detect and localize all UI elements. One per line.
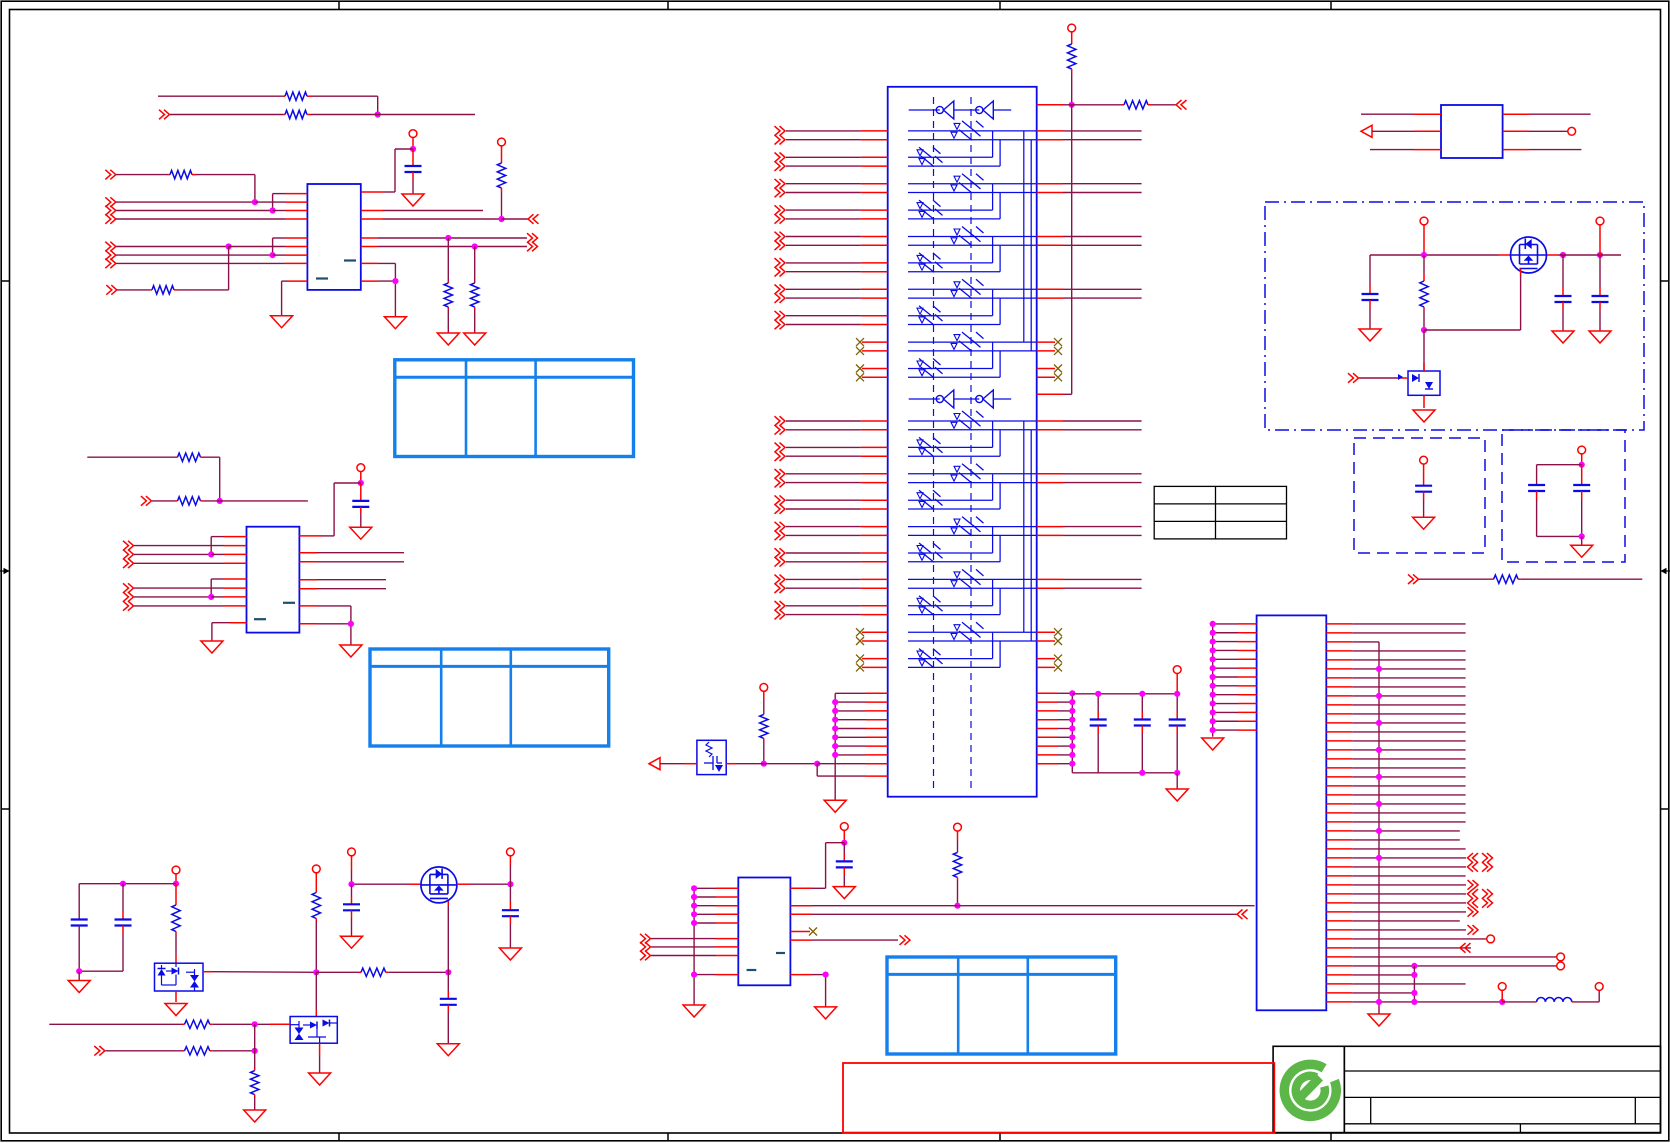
U4 switch cell S17 <box>908 569 1037 641</box>
resistor R21 <box>251 1068 259 1097</box>
wire net B1 <box>116 174 168 176</box>
resistor R1 <box>283 92 311 100</box>
wire option bottom rail <box>1537 535 1582 537</box>
border zone tick bottom x=339 <box>338 1133 340 1141</box>
pin U1 12 <box>361 246 378 248</box>
wire net F1 <box>317 552 404 554</box>
connector J1 pin R8 <box>1326 686 1465 688</box>
resistor R3 <box>497 163 505 192</box>
wire R16 down <box>175 934 177 963</box>
input arrow J2 <box>1361 125 1372 137</box>
connector J1 pin R35 <box>1326 925 1478 935</box>
ground <box>341 936 363 948</box>
wire gate up <box>447 898 449 972</box>
wire C4 drop <box>474 247 476 282</box>
pin U2 13 <box>299 605 317 607</box>
pin U3 out1 <box>790 905 812 907</box>
transistor Q1 (protection xsitor) <box>684 740 736 774</box>
connector J1 pin R38 <box>1326 953 1564 961</box>
power node P9 <box>1568 127 1576 135</box>
wire net B1b <box>196 175 255 203</box>
wire U2 gnd-right <box>317 624 351 645</box>
ground <box>1368 1014 1390 1026</box>
U4 left pins pair 16 <box>775 548 888 566</box>
U4 left pins pair 11 <box>775 416 888 434</box>
wire U2 pin1 <box>211 537 224 555</box>
table T2 (blue) <box>370 649 609 746</box>
node U2 gnd junction <box>348 621 354 627</box>
off-page connector Q1in <box>94 1046 105 1056</box>
wire net E1 <box>134 545 224 547</box>
ground <box>1359 329 1381 341</box>
pin U2 9 <box>299 552 317 554</box>
off-page connector N3 <box>640 951 651 961</box>
off-page connector E1 <box>123 541 134 551</box>
ground <box>464 333 486 345</box>
wire net C3 <box>378 237 527 239</box>
option box 1 (dashed) <box>1354 438 1485 553</box>
power node P13 <box>1578 446 1586 465</box>
off-page connector M1 <box>1408 574 1419 584</box>
capacitor C6 <box>1362 255 1379 329</box>
node P13 junction <box>1579 462 1585 468</box>
power node P17 <box>312 865 320 893</box>
pin U3 out3 <box>790 939 812 941</box>
pin U2 vdd <box>299 535 321 537</box>
wire net B2b <box>255 201 285 203</box>
U4 switch cell S15 <box>908 517 1037 589</box>
wire drain rail <box>457 883 511 885</box>
IC U5 <box>1441 105 1503 158</box>
capacitor C17 <box>502 884 519 948</box>
connector J1 pin R26 <box>1326 848 1465 850</box>
capacitor C4 <box>1134 694 1151 773</box>
pin U1 10 <box>361 218 383 220</box>
wire en-top <box>1063 104 1072 106</box>
U4 switch cell S7 <box>908 279 1037 351</box>
pin U5 2 <box>1414 130 1441 132</box>
power node P3 <box>357 464 365 483</box>
resistor R5 <box>150 286 177 294</box>
power node P16 <box>172 866 180 884</box>
node gnd-right junction <box>392 278 398 284</box>
wire R12 down <box>763 741 765 764</box>
off-page connector E2 <box>123 550 134 560</box>
pin U5 5 <box>1503 130 1529 132</box>
wire net F5 <box>317 606 351 624</box>
U4 left pins pair 15 <box>775 522 888 540</box>
connector J1 pin R16 <box>1326 758 1465 760</box>
ground <box>499 948 521 960</box>
U4 left pins pair 7 <box>775 285 888 303</box>
node B2 junction <box>252 199 258 205</box>
IC U1 <box>307 184 360 290</box>
ground <box>165 1004 187 1016</box>
U4 right pins pair 15 <box>1037 527 1142 536</box>
wire net A2b <box>311 114 475 116</box>
ground <box>1202 738 1224 750</box>
pin U3 gnd-right <box>790 974 812 976</box>
wire cap rail bottom <box>79 970 123 972</box>
connector J1 body <box>1257 615 1327 1010</box>
transistor Q6 (pmos) <box>421 867 457 903</box>
U4 right pins pair 3 <box>1037 184 1142 193</box>
off-page connector D2 <box>141 496 152 506</box>
wire net B7 <box>116 262 285 264</box>
border center arrow right <box>1661 568 1670 574</box>
border zone tick right y=809 <box>1661 808 1669 810</box>
U4 right pins pair 11 <box>1037 421 1142 430</box>
resistor R4 <box>168 170 196 178</box>
capacitor C3 <box>1090 694 1107 773</box>
wire net B2 <box>116 201 255 203</box>
U4 switch cell S10 <box>908 343 1000 378</box>
connector J1 pin R40 <box>1326 972 1417 978</box>
connector J1 pin R11 <box>1326 713 1465 715</box>
border zone tick bottom x=668 <box>667 1133 669 1141</box>
connector J1 pin R21 <box>1326 801 1465 807</box>
pin U1 vdd <box>361 191 383 193</box>
off-page connector E6 <box>123 601 134 611</box>
node U3 gnd junction <box>823 972 829 978</box>
node P16 junction <box>173 881 179 887</box>
wire R17 to Q5 <box>315 972 317 1016</box>
wire bottom tie <box>254 1024 256 1068</box>
connector J1 pin R12 <box>1326 720 1465 726</box>
power node P10 <box>1420 217 1428 255</box>
ground <box>402 194 424 206</box>
U4 right pins pair 13 <box>1037 474 1142 483</box>
wire P1 to U1 pin <box>383 149 413 192</box>
pin U5 1 <box>1414 113 1441 115</box>
connector J1 pin R24 <box>1326 828 1460 834</box>
pin U1 13 <box>361 262 378 264</box>
wire net Q4-out <box>213 971 316 974</box>
resistor R12 <box>760 714 768 741</box>
U4 enable bus <box>1071 105 1073 395</box>
U4 switch cell S4 <box>908 184 1000 219</box>
wire net D2b <box>203 500 308 502</box>
capacitor C5 <box>1169 694 1186 773</box>
pin U3 vdd <box>790 887 812 889</box>
wire option gnd <box>1581 536 1583 545</box>
U4 inverter chain top <box>909 101 1012 119</box>
power node P14 <box>840 823 848 843</box>
wire decoupling top rail <box>1072 693 1177 695</box>
wire net F4 <box>317 588 386 590</box>
U4 left pins pair 4 <box>775 205 888 223</box>
capacitor C16 <box>343 884 360 936</box>
node Q1 gate junction <box>761 761 767 767</box>
node rail junctions <box>1421 252 1603 258</box>
wire net B6 <box>116 254 273 256</box>
node net-R17 junction <box>313 969 319 975</box>
wire net B5 <box>116 246 229 248</box>
ground <box>437 333 459 345</box>
connector J1 pin R5 <box>1326 659 1465 661</box>
U4 switch cell S9 <box>908 332 1037 351</box>
wire net A1b <box>311 96 378 114</box>
U4 left pins pair 18 <box>775 601 888 619</box>
pin U1 gnd-right <box>361 280 378 282</box>
ground <box>1166 789 1188 801</box>
off-page connector E5 <box>123 592 134 602</box>
wire net G1b <box>1151 104 1176 106</box>
connector J1 pin R18 <box>1326 774 1465 780</box>
ground <box>1413 517 1435 529</box>
wire net gate b <box>388 971 448 973</box>
wire net bottom2 <box>106 1050 183 1052</box>
pin U4 ctl10 <box>866 775 888 777</box>
revision box (red) <box>843 1063 1274 1133</box>
wire net M1b <box>1521 578 1643 580</box>
wire R7 gnd <box>474 310 476 333</box>
pin U2 4 <box>224 562 247 564</box>
wire net B3 <box>116 210 273 212</box>
power node P1 <box>409 130 417 149</box>
wire net N1 <box>651 938 738 940</box>
off-page connector O3 <box>900 935 911 945</box>
U4 left pins pair 14 <box>775 495 888 513</box>
U4 right pins pair 5 <box>1037 237 1142 246</box>
wire R3 to net <box>501 192 503 219</box>
pin U1 4 <box>285 218 307 220</box>
wire net C5 <box>378 263 395 281</box>
wire U2 gnd-left <box>212 623 230 641</box>
wire net E3 <box>134 562 224 564</box>
off-page connector N1 <box>640 934 651 944</box>
node rail junction <box>120 881 126 887</box>
off-page connector B4 <box>105 214 116 224</box>
connector J1 pin R31 <box>1326 889 1492 899</box>
connector J1 pin R42 <box>1326 990 1417 996</box>
resistor R9 <box>176 497 204 505</box>
wire net J1b <box>1529 113 1591 115</box>
wire U3 gnd-right <box>812 975 826 1007</box>
ground <box>833 887 855 899</box>
off-page connector C4 <box>527 242 538 252</box>
pin U5 6 <box>1503 149 1529 151</box>
wire L1 to P8 <box>1574 990 1599 1002</box>
wire net M1 <box>1419 578 1491 580</box>
capacitor C13 <box>71 920 88 972</box>
resistor R18 <box>359 968 389 976</box>
pin U4 en-top <box>1037 104 1063 106</box>
capacitor C15 <box>440 972 457 1043</box>
wire decoupling bottom rail <box>1072 772 1177 774</box>
node B5 junction <box>226 243 232 249</box>
wire net D1 <box>87 456 175 458</box>
node E5 junction <box>208 594 214 600</box>
connector J1 pin R33 <box>1326 907 1478 917</box>
border zone tick top x=339 <box>338 1 340 9</box>
pin U1 11 <box>361 237 378 239</box>
U4 right nc pair 10 <box>1037 365 1062 382</box>
wire rail right <box>1547 254 1622 256</box>
resistor R16 <box>172 884 180 934</box>
connector J1 pin R28 <box>1326 862 1492 872</box>
resistor R20 <box>182 1047 212 1055</box>
border zone tick top x=1000 <box>999 1 1001 9</box>
pin U2 11 <box>299 579 317 581</box>
pin U2 10 <box>299 561 317 563</box>
title block logo cell <box>1273 1046 1344 1132</box>
pin U3 nc <box>790 928 817 936</box>
connector J1 pin R22 <box>1326 812 1465 814</box>
wire net E5 <box>134 596 211 598</box>
U4 left pins pair 5 <box>775 232 888 250</box>
wire source rail <box>352 871 421 884</box>
wire net B8 <box>117 289 150 291</box>
wire P14 to U3 <box>812 843 844 889</box>
ground <box>683 1005 705 1017</box>
option box 2 (dashed) <box>1502 430 1625 562</box>
resistor R10 <box>1068 44 1076 73</box>
wire P3 to U2 <box>321 483 361 536</box>
table T3 (blue) <box>887 957 1116 1054</box>
U4 right nc pair 19 <box>1037 628 1062 645</box>
wire net gate <box>316 971 358 973</box>
power node P4 <box>1068 24 1076 44</box>
border zone tick left y=281 <box>1 280 9 282</box>
U4 left pins pair 3 <box>775 179 888 197</box>
capacitor C10 <box>1528 485 1545 536</box>
U4 left pins pair 8 <box>775 311 888 329</box>
resistor R2 <box>283 110 311 118</box>
ground <box>815 1007 837 1019</box>
wire Q5 gnd <box>319 1056 321 1074</box>
wire option rail <box>1537 465 1582 485</box>
node decoupling junctions <box>1095 691 1180 776</box>
connector J1 pin R6 <box>1326 666 1465 672</box>
wire net J2a <box>1372 130 1414 132</box>
pin U1 9 <box>361 210 383 212</box>
connector J1 pin R13 <box>1326 731 1465 733</box>
wire net C2 <box>383 218 502 220</box>
table T4 (black 2x3) <box>1154 486 1286 539</box>
node P3 junction <box>358 480 364 486</box>
ground <box>201 641 223 653</box>
pin U1 5 <box>285 237 307 239</box>
connector J1 pin R4 <box>1326 650 1465 652</box>
wire net D1b <box>203 457 220 501</box>
node E2 junction <box>208 551 214 557</box>
pin U2 gnd-left <box>230 622 247 624</box>
wire net B4 <box>116 218 285 220</box>
wire rail gnd <box>78 971 80 980</box>
wire net bottom2b <box>212 1050 254 1052</box>
off-page connector B5 <box>105 242 116 252</box>
ground <box>271 316 293 328</box>
pin U1 7 <box>285 254 307 256</box>
node H1 junction <box>814 761 820 767</box>
connector J1 pin R10 <box>1326 704 1465 706</box>
resistor R14 <box>1491 575 1521 583</box>
pin U1 6 <box>285 246 307 248</box>
node C3 junction <box>445 235 451 241</box>
off-page connector B2 <box>105 197 116 207</box>
U4 switch cell S18 <box>908 580 1000 615</box>
wire net J3a <box>1370 149 1414 151</box>
ground <box>350 527 372 539</box>
wire net H1 <box>660 763 684 765</box>
wire net E2 <box>134 553 211 555</box>
power node P19 <box>507 848 515 884</box>
connector J1 left pins bus <box>1210 621 1257 737</box>
border zone tick top x=1331 <box>1330 1 1332 9</box>
pin U2 1 <box>224 536 247 538</box>
input arrow H1 <box>649 758 660 770</box>
wire net E6 <box>134 605 224 607</box>
connector J1 pin R37 <box>1326 943 1471 953</box>
border zone tick top x=668 <box>667 1 669 9</box>
wire U1 pin5 <box>273 238 285 255</box>
power node P5 <box>1173 666 1181 694</box>
transistor Q2 (pmos) <box>1511 237 1547 273</box>
node C2 junction <box>498 216 504 222</box>
wire net D2 <box>152 500 176 502</box>
wire net B8b <box>177 247 229 290</box>
ground <box>1413 410 1435 422</box>
off-page connector B1 <box>105 170 116 180</box>
wire R6 gnd <box>447 310 449 333</box>
capacitor C7 <box>1555 255 1572 331</box>
U4 right nc pair 9 <box>1037 338 1062 355</box>
pin U3 out2 <box>790 913 812 915</box>
wire U2 pin5 <box>211 579 224 597</box>
U4 switch cell S20 <box>908 633 1000 668</box>
node R15 junction <box>954 903 960 909</box>
ground <box>1571 545 1593 557</box>
pin U1 2 <box>285 201 307 203</box>
resistor R8 <box>176 453 204 461</box>
resistor R7 <box>471 281 479 310</box>
border zone tick left y=809 <box>1 808 9 810</box>
connector J1 pin R7 <box>1326 677 1465 679</box>
connector J1 pin R17 <box>1326 767 1465 769</box>
IC U2 <box>247 527 300 633</box>
node bottom2 junction <box>252 1048 258 1054</box>
node bottom junction <box>1579 533 1585 539</box>
IC U4 analog switch body <box>888 87 1037 797</box>
U4 left pins pair 19 <box>856 628 888 645</box>
connector J1 pin R29 <box>1326 875 1465 877</box>
wire net O3 <box>812 939 898 941</box>
wire net F2 <box>317 561 404 563</box>
off-page connector B7 <box>105 259 116 269</box>
wire net C4 <box>378 246 527 248</box>
wire P4 bus <box>1071 73 1073 105</box>
resistor R15 <box>953 852 961 880</box>
wire net B6b <box>273 254 285 256</box>
pin U2 5 <box>224 578 247 580</box>
U4 switch cell S11 <box>908 411 1037 483</box>
power node P6 <box>760 684 768 715</box>
company logo (green) <box>1284 1064 1336 1116</box>
wire net J3b <box>1529 149 1581 151</box>
off-page connector K1 <box>1348 373 1359 383</box>
ground <box>1589 331 1611 343</box>
power node P18 <box>348 848 356 871</box>
U4 inverter chain bottom <box>909 390 1012 408</box>
pin U2 6 <box>224 587 247 589</box>
power node P15 <box>954 823 962 852</box>
wire net A2 <box>170 114 283 116</box>
U4 switch cell S2 <box>908 131 1000 166</box>
connector J1 pin R25 <box>1326 839 1460 841</box>
wire U1 pin1 <box>273 194 285 211</box>
node A2 junction <box>375 111 381 117</box>
